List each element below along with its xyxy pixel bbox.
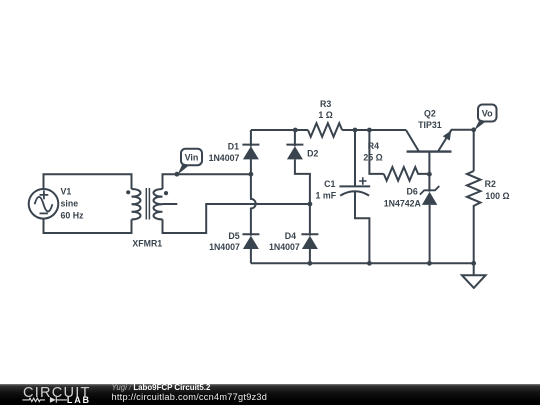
svg-text:D4: D4 [285,231,296,241]
bottom rail [251,262,474,264]
wire V1 bottom to primary [44,218,132,233]
node R4 top dot [367,128,372,133]
diode D4 [301,234,318,249]
resistor R4 [384,167,430,181]
node B dot (D2 top) [293,128,298,133]
ground [462,263,486,288]
D4 labels [269,231,300,252]
svg-text:1 Ω: 1 Ω [318,110,332,120]
D5 labels [209,231,240,252]
wire D4 to bottom rail [309,249,311,263]
junction dot D4 bottom [308,261,313,266]
transformer XFMR1 secondary coil [154,189,163,219]
top rail [251,129,308,131]
node Vin dot [175,172,180,177]
svg-text:D5: D5 [228,231,239,241]
svg-text:R3: R3 [320,99,331,109]
svg-text:C1: C1 [324,179,335,189]
svg-text:1N4007: 1N4007 [269,242,300,252]
svg-text:D6: D6 [407,187,418,197]
footer title text [112,384,211,392]
resistor R3 [308,123,342,137]
svg-text:R2: R2 [485,179,496,189]
voltage source V1 [29,189,59,219]
svg-text:XFMR1: XFMR1 [132,239,162,249]
R3 labels [318,99,332,120]
probe label Vin [178,149,203,175]
svg-text:100 Ω: 100 Ω [485,191,509,201]
svg-text:1N4742A: 1N4742A [384,198,422,208]
node C1 top dot [353,128,358,133]
top rail after R3 [342,129,406,131]
wire D2 branch [295,130,310,236]
diode D5 [242,234,259,249]
wire C1 branch top [354,130,356,186]
D1 labels [209,141,240,163]
svg-text:TIP31: TIP31 [418,120,442,130]
D6 labels [384,187,422,209]
R4 labels [363,141,382,163]
svg-text:D2: D2 [307,148,318,158]
wire AC1 branch up [250,130,252,174]
junction dot D6 bottom [427,261,432,266]
node A junction dot [249,172,254,177]
svg-text:R4: R4 [368,141,379,151]
svg-text:Vo: Vo [482,109,493,119]
svg-text:1 mF: 1 mF [316,191,337,201]
diode D2 [286,145,303,160]
zener diode D6 [420,174,439,263]
footer url text [112,393,268,401]
svg-text:V1: V1 [61,187,72,197]
wire secondary bottom [163,204,310,233]
resistor R2 [467,171,481,263]
svg-text:LAB: LAB [67,395,91,405]
capacitor C1 [339,177,370,195]
Q2 labels [418,109,442,130]
svg-text:1N4007: 1N4007 [209,153,240,163]
V1 labels [61,187,85,221]
wire D5 to bottom rail [250,249,252,263]
svg-text:25 Ω: 25 Ω [363,153,382,163]
secondary phase dot [164,191,168,195]
C1 labels [316,179,337,200]
svg-text:sine: sine [61,199,79,209]
center tap stub [163,203,178,205]
diode D1 [242,145,259,160]
wire V1 top to primary [44,174,132,189]
svg-text:1N4007: 1N4007 [209,242,240,252]
junction dot C1 bottom [367,261,372,266]
wire C1 branch bottom [355,192,369,264]
svg-text:D1: D1 [228,141,239,151]
wire R2 branch [473,130,475,171]
transformer XFMR1 primary coil [132,189,141,219]
wire secondary top to node A [163,174,251,189]
probe label Vo [474,105,496,131]
node Vo dot [471,127,476,132]
transistor Q2 [406,130,474,174]
svg-text:Vin: Vin [185,153,199,163]
svg-text:60 Hz: 60 Hz [61,211,85,221]
transformer core [146,188,149,220]
node base/zener dot [427,172,432,177]
wire AC1 branch down with hop [251,174,256,236]
wire R4 branch [369,130,383,174]
footer bar [0,384,540,405]
primary phase dot [126,190,130,194]
node AC2 dot [308,202,313,207]
R2 labels [485,179,510,201]
junction dot ground [471,261,476,266]
svg-text:Q2: Q2 [424,109,436,119]
